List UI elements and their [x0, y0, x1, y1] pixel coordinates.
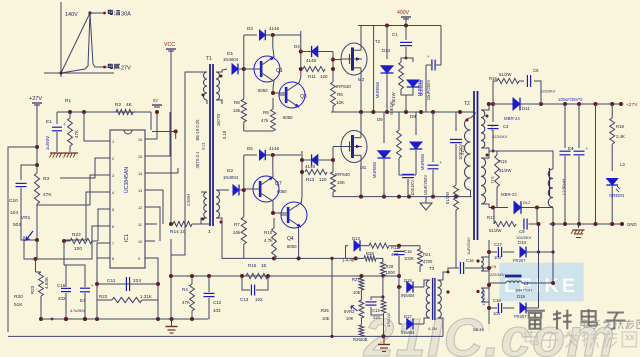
svg-text:140V: 140V	[65, 12, 78, 18]
resistor R1 label	[65, 98, 71, 104]
T1 winding lower right	[216, 190, 244, 258]
wire	[151, 258, 158, 284]
junction	[359, 274, 363, 278]
svg-text:8050: 8050	[283, 115, 293, 120]
svg-text:+: +	[440, 160, 443, 165]
svg-text:C15: C15	[404, 249, 412, 254]
wire gate column	[332, 52, 334, 83]
svg-text:51/2W: 51/2W	[499, 72, 512, 77]
diode D14 MUR860	[372, 112, 390, 197]
svg-text:E3: E3	[80, 298, 86, 303]
svg-text:15: 15	[138, 155, 142, 159]
node 400V	[397, 10, 411, 26]
wire	[171, 72, 196, 255]
resistor R18	[610, 104, 625, 144]
svg-text:5: 5	[112, 208, 114, 212]
svg-text:103/1KV: 103/1KV	[410, 180, 415, 196]
wire M2 drain	[358, 26, 361, 44]
wire	[389, 245, 420, 247]
resistor R26	[353, 318, 368, 342]
svg-text:E1: E1	[46, 119, 52, 125]
resistor R22b	[97, 284, 158, 303]
junction	[397, 274, 401, 289]
junction	[64, 317, 160, 321]
wire	[36, 204, 38, 240]
svg-text:MBR-24: MBR-24	[504, 116, 520, 121]
wire	[37, 175, 104, 205]
svg-text:8050: 8050	[287, 244, 297, 249]
wire ground rail left	[39, 317, 70, 321]
wire	[35, 259, 37, 272]
svg-text:5VR2: 5VR2	[344, 309, 355, 314]
wire	[244, 68, 261, 70]
svg-text:FR207: FR207	[514, 314, 527, 319]
wire	[399, 174, 416, 176]
svg-text:7TS: 7TS	[490, 176, 495, 184]
svg-text:30A: 30A	[121, 12, 131, 18]
potentiometer VR1	[13, 215, 35, 259]
snubber R17 C9	[487, 208, 537, 241]
svg-text:104: 104	[493, 311, 501, 316]
svg-text:47K: 47K	[74, 130, 79, 138]
junction	[68, 110, 72, 114]
svg-text:4148: 4148	[269, 26, 280, 31]
svg-text:4.7k: 4.7k	[264, 238, 273, 243]
wire	[133, 112, 151, 130]
svg-text:4-1N: 4-1N	[428, 326, 437, 331]
svg-text:LEIKE: LEIKE	[504, 275, 578, 297]
svg-text:10k: 10k	[233, 230, 241, 235]
wire	[244, 122, 273, 131]
junction	[487, 250, 491, 310]
svg-text:1: 1	[112, 140, 114, 144]
diode D13 1N4148	[342, 236, 369, 263]
svg-text:T3: T3	[429, 266, 435, 271]
junction	[62, 239, 66, 243]
svg-text:224: 224	[133, 278, 141, 284]
svg-text:4: 4	[112, 191, 114, 195]
resistor R12f	[369, 243, 399, 257]
T1 dot	[202, 218, 205, 221]
capacitor E3	[70, 265, 94, 319]
wire	[551, 208, 555, 284]
svg-text:T1: T1	[206, 56, 212, 62]
svg-text:102: 102	[255, 297, 263, 302]
svg-text:1N4004: 1N4004	[223, 57, 239, 62]
T1 winding upper right	[216, 70, 222, 104]
wire driver column	[300, 31, 302, 77]
T2 dot	[466, 119, 469, 122]
svg-text:51/2W: 51/2W	[499, 168, 512, 173]
resistor R17v	[389, 101, 401, 175]
junction	[397, 244, 420, 248]
svg-text:D17: D17	[404, 314, 412, 319]
wire top bypass	[244, 34, 301, 36]
wire	[244, 244, 356, 258]
wire	[21, 165, 37, 180]
svg-text:6: 6	[112, 225, 114, 229]
capacitor C17	[489, 242, 510, 260]
wire Q1 collector	[273, 35, 274, 57]
transistor Q4	[281, 202, 307, 249]
wire	[36, 104, 38, 173]
resistor R27	[352, 276, 364, 300]
graph origin dot	[59, 71, 62, 74]
junction	[64, 317, 87, 321]
wire aux rail	[488, 240, 490, 324]
watermark fans text	[581, 319, 640, 329]
junction	[34, 257, 38, 261]
capacitor C16b	[57, 265, 71, 319]
svg-text:4.7K/2W: 4.7K/2W	[481, 290, 486, 306]
wire	[8, 147, 37, 332]
watermark 21IC big under	[363, 308, 616, 357]
wire	[595, 104, 597, 224]
wire R22 100	[64, 232, 98, 252]
resistor R6	[331, 82, 344, 112]
svg-text:D10: D10	[518, 240, 526, 245]
svg-text:R16: R16	[489, 76, 497, 81]
svg-text:10K: 10K	[337, 180, 345, 185]
wire feedback rail	[8, 335, 443, 337]
svg-text:+: +	[427, 54, 430, 59]
ground	[571, 224, 585, 238]
svg-text:1N470uH: 1N470uH	[515, 288, 532, 293]
resistor R29	[381, 262, 396, 276]
wire aux out	[522, 222, 556, 308]
svg-text:0.18: 0.18	[222, 130, 227, 139]
T2 secondary lower	[481, 151, 489, 208]
wire vcc	[170, 50, 172, 224]
wire	[97, 283, 158, 285]
svg-text:1: 1	[208, 229, 211, 235]
capacitor C15f	[394, 246, 414, 287]
resistor R30	[381, 297, 391, 336]
wire out rail	[489, 103, 621, 105]
wire Q3 collector	[299, 77, 301, 83]
svg-text:R1: R1	[65, 98, 71, 104]
svg-text:10E: 10E	[353, 290, 361, 295]
resistor R14 10	[170, 221, 201, 235]
transistor Q7	[253, 176, 287, 202]
junction	[491, 206, 539, 210]
T2 aux winding	[481, 240, 489, 308]
watermark fans big under	[525, 330, 636, 347]
wire	[56, 112, 58, 124]
svg-text:3: 3	[112, 174, 114, 178]
junction	[82, 110, 86, 114]
ground	[378, 336, 390, 351]
svg-text:D5: D5	[247, 146, 253, 151]
node VCC	[164, 42, 176, 51]
wire	[69, 112, 71, 152]
svg-text:MUR860: MUR860	[420, 153, 425, 170]
diode D12 MUR860	[375, 26, 393, 113]
svg-text:C16: C16	[466, 258, 474, 263]
diode D7 MBR-24	[489, 192, 553, 214]
svg-text:100uF/35V*2: 100uF/35V*2	[558, 97, 583, 102]
T2 secondary upper	[481, 104, 489, 151]
node out +27V	[619, 102, 638, 108]
svg-text:IC1: IC1	[124, 234, 130, 242]
wire Q4 collector	[301, 197, 302, 204]
svg-text:R9: R9	[263, 110, 269, 115]
svg-text:C1: C1	[392, 32, 398, 37]
junction	[385, 24, 408, 28]
svg-text:R28: R28	[366, 251, 374, 256]
svg-text:102/2KV: 102/2KV	[540, 89, 556, 94]
svg-text:10uF/250V: 10uF/250V	[423, 175, 428, 196]
wire Q7 collector	[272, 155, 274, 177]
junction	[455, 111, 457, 113]
resistor R16v	[391, 58, 406, 106]
svg-text:MUR860: MUR860	[372, 161, 377, 178]
T1 spec text	[186, 119, 206, 206]
svg-text:2: 2	[112, 157, 114, 161]
snubber R16 C8	[489, 68, 556, 104]
wire	[382, 276, 384, 297]
junction	[271, 33, 275, 37]
diode D18 IN5404	[399, 278, 424, 298]
wire Q1 emitter	[273, 81, 274, 93]
wire M1 source	[360, 163, 362, 197]
diode D19	[510, 294, 539, 319]
capacitor C1	[392, 26, 412, 59]
junction	[455, 239, 457, 241]
resistor R21v	[418, 246, 433, 272]
junction	[242, 188, 246, 192]
junction	[447, 271, 450, 274]
T1 winding upper left	[196, 72, 207, 104]
T1 label 1	[208, 114, 227, 235]
diode D4 4148	[294, 44, 333, 63]
mosfet Q2 M2 IRF640	[336, 39, 381, 89]
wire	[21, 188, 37, 240]
svg-text:102K: 102K	[404, 256, 414, 261]
svg-text:R25: R25	[321, 308, 329, 313]
wire	[98, 209, 104, 241]
wire	[300, 34, 302, 36]
junction	[169, 274, 173, 278]
T2 sec text	[490, 124, 495, 184]
ground	[166, 319, 178, 333]
svg-text:47K: 47K	[182, 300, 190, 305]
node out GND	[620, 222, 637, 227]
junction	[272, 256, 358, 260]
junction	[242, 67, 246, 71]
svg-text:8: 8	[112, 257, 114, 261]
wire gnd out rail	[549, 223, 622, 225]
svg-text:C17: C17	[494, 242, 502, 247]
svg-text:332: 332	[58, 296, 66, 301]
svg-text:E4: E4	[568, 146, 574, 151]
svg-text:1000: 1000	[386, 270, 396, 275]
svg-text:D3: D3	[247, 26, 253, 31]
T2 dot	[476, 259, 479, 293]
junction	[240, 274, 270, 278]
graph peak dot	[88, 11, 103, 14]
svg-text:4K: 4K	[126, 102, 133, 108]
resistor R3	[34, 173, 52, 204]
svg-text:D9: D9	[410, 114, 416, 119]
T1 winding lower left	[201, 192, 207, 224]
svg-text:D19: D19	[517, 294, 525, 299]
svg-text:L2 50uH: L2 50uH	[562, 179, 567, 195]
svg-text:222/1KV: 222/1KV	[492, 134, 508, 139]
wire	[151, 190, 163, 224]
wire M2 gate wire	[333, 59, 341, 61]
svg-text:+: +	[63, 122, 66, 127]
junction	[35, 238, 39, 242]
svg-text:R4: R4	[182, 287, 188, 292]
wire	[271, 91, 286, 95]
potentiometer VR2	[344, 300, 364, 321]
ground	[50, 153, 79, 158]
transformer T1 core	[206, 56, 213, 226]
ground	[420, 197, 432, 210]
diode D9 MUR860	[410, 112, 425, 175]
svg-text:27V: 27V	[121, 66, 131, 72]
label 4.7K/2W	[481, 290, 486, 306]
svg-text:1-4-48: 1-4-48	[342, 258, 355, 263]
junction	[331, 58, 335, 72]
svg-text:13: 13	[138, 189, 142, 193]
svg-text:IRF640: IRF640	[335, 172, 350, 177]
wire top bypass 2	[244, 154, 301, 156]
resistor R2v	[68, 118, 79, 146]
wire	[382, 258, 384, 262]
svg-text:L3: L3	[620, 162, 625, 167]
capacitor C4	[488, 104, 510, 151]
svg-text:R6: R6	[337, 92, 343, 97]
transistor Q3	[279, 82, 307, 120]
diode D1	[222, 51, 244, 74]
wire	[151, 223, 157, 225]
wire M1 drain	[360, 112, 362, 131]
svg-text:4700: 4700	[423, 259, 433, 264]
svg-text:224: 224	[373, 315, 381, 320]
svg-text:104: 104	[10, 210, 18, 216]
transistor Q1	[254, 56, 283, 93]
svg-text:C9: C9	[491, 264, 497, 269]
junction	[360, 335, 362, 337]
wire	[398, 287, 400, 324]
svg-text:R20: R20	[14, 294, 23, 300]
junction	[95, 282, 99, 286]
svg-text:R22: R22	[99, 294, 108, 299]
svg-text:12: 12	[138, 206, 142, 210]
svg-text:R13: R13	[306, 177, 315, 182]
svg-text:C4: C4	[503, 124, 509, 129]
svg-text:4.63K: 4.63K	[44, 277, 49, 289]
junction	[359, 110, 462, 114]
svg-text:DL2: DL2	[523, 200, 531, 205]
wire 400V rail	[358, 25, 441, 27]
wire gate column 2	[332, 147, 334, 173]
svg-text:C13: C13	[240, 297, 249, 302]
node voltage label	[103, 64, 131, 72]
wire	[268, 275, 383, 277]
wire	[84, 112, 104, 141]
resistor R20 labels	[14, 294, 23, 308]
wire	[170, 239, 172, 319]
svg-text:EE-19 0.25: EE-19 0.25	[195, 119, 200, 141]
svg-text:R21: R21	[423, 252, 431, 257]
resistor R2	[115, 102, 133, 115]
LED L3 GREEN	[606, 144, 625, 224]
svg-text:10B: 10B	[360, 337, 368, 342]
junction	[405, 57, 408, 60]
resistor R5	[445, 185, 458, 240]
diode D2	[222, 168, 244, 195]
inductor L2	[489, 151, 567, 207]
svg-text:0.21: 0.21	[201, 141, 206, 150]
svg-text:MUR860: MUR860	[419, 79, 424, 96]
T1 dot	[202, 94, 205, 97]
resistor R9	[261, 98, 275, 131]
diode D6 4148	[302, 154, 333, 169]
svg-text:2.4K: 2.4K	[616, 134, 625, 139]
wire	[60, 158, 104, 178]
inductor L1	[489, 276, 532, 293]
resistor R8	[233, 99, 246, 122]
svg-text:4148: 4148	[269, 146, 280, 151]
wire base column 2	[243, 155, 245, 217]
wire base column	[243, 35, 245, 99]
wire	[151, 207, 160, 241]
svg-text:C12: C12	[213, 300, 222, 305]
T2 primary	[465, 114, 475, 197]
svg-text:7: 7	[112, 242, 114, 246]
wire driver column 2	[301, 151, 303, 197]
junction	[169, 222, 173, 226]
svg-text:D13: D13	[352, 236, 360, 241]
svg-text:D11: D11	[522, 106, 530, 111]
junction	[207, 274, 257, 278]
svg-text:10K: 10K	[336, 100, 344, 105]
svg-text:1uF/250V: 1uF/250V	[466, 237, 471, 255]
svg-text:120: 120	[320, 74, 328, 79]
svg-text:10: 10	[138, 240, 142, 244]
svg-text:Q7: Q7	[275, 181, 282, 187]
junction	[190, 274, 194, 321]
resistor R12b	[331, 172, 345, 197]
svg-text:T2: T2	[464, 101, 470, 107]
wire Q7 emitter	[272, 201, 274, 213]
capacitor E4b	[568, 104, 589, 224]
net1 column R28	[356, 251, 383, 261]
graph curve limit	[61, 13, 90, 73]
graph curve fold	[90, 13, 107, 67]
svg-text:R3: R3	[43, 176, 49, 182]
resistor R7	[233, 217, 246, 244]
svg-text:4.7u/50V: 4.7u/50V	[70, 309, 86, 313]
capacitor E2	[419, 26, 441, 113]
junction	[331, 158, 335, 162]
svg-text:21TS: 21TS	[460, 145, 465, 155]
svg-text:222/1KV: 222/1KV	[490, 273, 505, 277]
capacitor C18	[489, 298, 510, 316]
svg-text:47k: 47k	[261, 118, 269, 123]
wire	[151, 168, 178, 173]
capacitor C13	[240, 276, 268, 302]
resistor R10	[264, 218, 276, 258]
junction	[300, 158, 304, 174]
svg-text:Q4: Q4	[287, 236, 294, 242]
resistor R13	[305, 169, 327, 182]
svg-text:4148: 4148	[305, 164, 316, 169]
junction	[563, 222, 614, 226]
